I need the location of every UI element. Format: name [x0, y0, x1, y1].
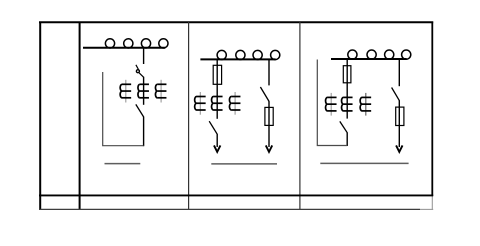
table column divider (scheme 2 | scheme 3) [299, 22, 301, 210]
winding loop 1 on busbar W2 [217, 50, 226, 59]
wire: load switch to voltage transformer TV1 [143, 77, 145, 105]
load switch QL1 pivot circle [136, 70, 139, 73]
table outer bottom border [39, 208, 420, 210]
voltage transformer TV1 phase C winding [155, 80, 166, 103]
winding loop 3 on busbar W2 [253, 50, 262, 59]
fuse FU2a body [213, 65, 221, 84]
fuse FU3b body [396, 107, 404, 125]
wire: fuse FU2b to arrow [268, 125, 270, 147]
wire: QS2a to secondary arrow [216, 134, 218, 147]
busbar W2 (scheme 2) [200, 58, 275, 60]
wire: fuse FU3b to arrow [398, 126, 400, 148]
table outer left border [39, 22, 41, 211]
wire: fuse to voltage transformer TV2 [216, 84, 218, 119]
winding loop 4 on busbar W3 [402, 50, 411, 59]
cable loop (bracket) scheme 1 [103, 72, 144, 146]
winding loop 1 on busbar W3 [348, 50, 357, 59]
arrow to instruments (scheme 3) [396, 145, 402, 152]
voltage transformer TV3 phase B winding [342, 97, 353, 111]
arrow to instruments (scheme 2 right) [266, 145, 272, 152]
wire: QS3a down to cable loop [346, 133, 348, 147]
fuse FU3a body [343, 66, 351, 83]
winding loop 2 on busbar W3 [367, 50, 376, 59]
cable loop (bracket) scheme 3 [317, 60, 347, 146]
voltage transformer TV1 phase A winding [120, 80, 131, 103]
table column divider (label column) [79, 22, 81, 211]
secondary busbar (scheme 3) [320, 162, 408, 164]
wire: QS3b to fuse FU3b [398, 100, 400, 107]
disconnector QS2a blade [209, 121, 217, 134]
wire: W1 bus drop to load switch [143, 48, 145, 64]
winding loop 4 on busbar W2 [271, 50, 280, 59]
winding loop 4 on busbar W1 [159, 39, 168, 48]
wire: W2 drop to disconnector QS2b [268, 59, 270, 85]
voltage transformer TV2 phase C winding [229, 92, 240, 115]
voltage transformer TV3 phase C winding [360, 93, 371, 116]
winding loop 3 on busbar W1 [141, 39, 150, 48]
secondary busbar (scheme 2) [211, 163, 277, 165]
busbar W1 (scheme 1) [83, 47, 165, 49]
disconnector QS2b blade [260, 87, 269, 102]
wire: QS2b to fuse FU2b [268, 101, 270, 107]
wire: W3 drop to disconnector QS3b [398, 59, 400, 86]
winding loop 2 on busbar W2 [236, 50, 245, 59]
voltage transformer TV2 phase B winding [212, 97, 223, 111]
wire: W2 drop to fuse FU2a [216, 59, 218, 66]
table right border lower (gray) [431, 196, 433, 210]
disconnector QS3a blade [340, 121, 348, 132]
wire: QS1 down to cable loop [143, 117, 145, 147]
wire: W3 drop to fuse FU3a [346, 59, 348, 66]
table row divider [39, 194, 433, 196]
fuse FU2b body [265, 107, 273, 125]
winding loop 1 on busbar W1 [105, 39, 114, 48]
disconnector QS3b blade [392, 88, 400, 101]
table column divider (scheme 1 | scheme 2) [188, 22, 190, 210]
winding loop 2 on busbar W1 [124, 39, 133, 48]
load switch QL1 blade [139, 73, 144, 77]
wire: fuse FU3a to voltage transformer TV3 [346, 83, 348, 119]
table outer right border [431, 22, 433, 197]
voltage transformer TV2 phase A winding [195, 92, 206, 115]
voltage transformer TV3 phase A winding [326, 93, 337, 116]
fuse FU3b element wire [398, 107, 400, 125]
fuse FU3a element wire [346, 66, 348, 83]
arrow to instruments (scheme 2 left) [214, 145, 220, 152]
load switch QL1 blade tip tick [136, 65, 139, 70]
busbar W3 (scheme 3) [331, 58, 407, 60]
disconnector QS1 blade [136, 104, 144, 117]
secondary busbar (scheme 1) [105, 163, 141, 165]
table outer top border [39, 21, 433, 23]
winding loop 3 on busbar W3 [385, 50, 394, 59]
voltage transformer TV1 phase B winding [138, 84, 149, 98]
fuse FU2a element wire [216, 65, 218, 85]
fuse FU2b element wire [268, 107, 270, 125]
